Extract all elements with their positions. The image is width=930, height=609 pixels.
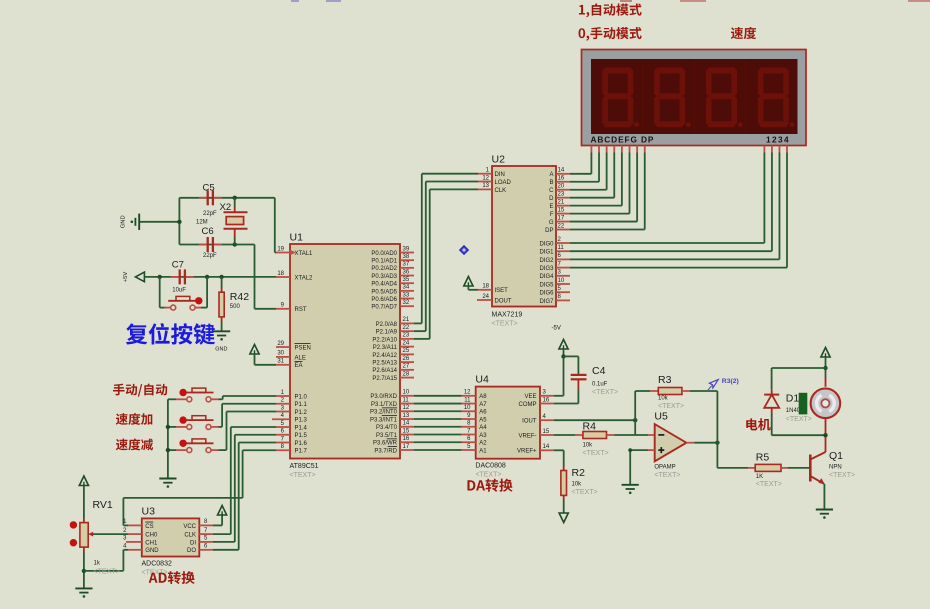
svg-text:1234: 1234 bbox=[766, 134, 790, 144]
svg-text:DIG6: DIG6 bbox=[539, 291, 554, 297]
svg-text:10k: 10k bbox=[572, 482, 583, 488]
svg-text:P1.2: P1.2 bbox=[295, 410, 308, 416]
svg-text:39: 39 bbox=[403, 246, 410, 252]
svg-text:16: 16 bbox=[403, 436, 410, 442]
svg-text:P1.0: P1.0 bbox=[295, 394, 308, 400]
svg-text:GND: GND bbox=[215, 347, 227, 353]
svg-text:R3(2): R3(2) bbox=[722, 378, 739, 385]
svg-text:P3.5/T1: P3.5/T1 bbox=[376, 433, 398, 439]
svg-text:R2: R2 bbox=[572, 467, 586, 479]
svg-text:ISET: ISET bbox=[495, 288, 509, 294]
svg-text:18: 18 bbox=[277, 271, 284, 277]
svg-text:P0.4/AD4: P0.4/AD4 bbox=[371, 282, 397, 288]
svg-text:14: 14 bbox=[558, 168, 565, 174]
svg-text:31: 31 bbox=[277, 359, 284, 365]
svg-text:GND: GND bbox=[145, 548, 159, 554]
svg-text:19: 19 bbox=[277, 246, 284, 252]
svg-text:P2.6/A14: P2.6/A14 bbox=[372, 368, 397, 374]
svg-text:A: A bbox=[549, 172, 553, 178]
svg-text:U3: U3 bbox=[142, 506, 156, 518]
svg-text:ADC0832: ADC0832 bbox=[142, 561, 172, 568]
svg-text:<TEXT>: <TEXT> bbox=[94, 569, 120, 576]
svg-text:13: 13 bbox=[403, 413, 410, 419]
svg-text:DIG3: DIG3 bbox=[539, 266, 554, 272]
svg-text:<TEXT>: <TEXT> bbox=[475, 472, 501, 479]
svg-text:13: 13 bbox=[482, 183, 489, 189]
svg-text:P2.7/A15: P2.7/A15 bbox=[372, 376, 397, 382]
svg-text:28: 28 bbox=[403, 371, 410, 377]
svg-text:17: 17 bbox=[558, 215, 565, 221]
svg-text:<TEXT>: <TEXT> bbox=[756, 481, 782, 488]
svg-text:18: 18 bbox=[482, 284, 489, 290]
svg-text:37: 37 bbox=[403, 262, 410, 268]
svg-text:U5: U5 bbox=[654, 411, 668, 423]
svg-text:22pF: 22pF bbox=[203, 253, 217, 259]
svg-text:RV1: RV1 bbox=[93, 499, 113, 511]
svg-text:P2.3/A11: P2.3/A11 bbox=[373, 345, 398, 351]
svg-text:A8: A8 bbox=[479, 394, 487, 400]
svg-text:B: B bbox=[549, 180, 553, 186]
svg-text:COMP: COMP bbox=[519, 402, 537, 408]
svg-text:P0.1/AD1: P0.1/AD1 bbox=[371, 259, 397, 265]
svg-text:17: 17 bbox=[403, 444, 410, 450]
svg-text:R4: R4 bbox=[583, 420, 597, 432]
svg-text:10uF: 10uF bbox=[172, 288, 186, 294]
svg-text:P0.2/AD2: P0.2/AD2 bbox=[371, 266, 397, 272]
svg-text:AT89C51: AT89C51 bbox=[290, 463, 319, 470]
svg-text:P1.1: P1.1 bbox=[295, 402, 308, 408]
svg-text:DOUT: DOUT bbox=[495, 298, 512, 304]
svg-text:R42: R42 bbox=[230, 291, 249, 303]
svg-text:10k: 10k bbox=[658, 396, 669, 402]
svg-text:A5: A5 bbox=[479, 417, 487, 423]
svg-text:P3.6/WR: P3.6/WR bbox=[373, 441, 398, 447]
svg-text:500: 500 bbox=[230, 304, 241, 310]
svg-text:14: 14 bbox=[403, 421, 410, 427]
svg-text:P3.1/TXD: P3.1/TXD bbox=[371, 402, 398, 408]
svg-text:11: 11 bbox=[464, 397, 471, 403]
svg-text:U4: U4 bbox=[475, 374, 489, 386]
svg-text:23: 23 bbox=[403, 333, 410, 339]
svg-text:1K: 1K bbox=[756, 474, 763, 480]
svg-text:DAC0808: DAC0808 bbox=[475, 463, 505, 470]
svg-text:21: 21 bbox=[558, 199, 565, 205]
svg-text:CLK: CLK bbox=[184, 533, 196, 539]
svg-text:20: 20 bbox=[558, 184, 565, 190]
svg-text:DIG0: DIG0 bbox=[539, 241, 554, 247]
svg-text:E: E bbox=[549, 204, 553, 210]
svg-text:P2.0/A8: P2.0/A8 bbox=[376, 322, 398, 328]
svg-text:VCC: VCC bbox=[183, 524, 196, 530]
svg-text:30: 30 bbox=[277, 351, 284, 357]
svg-text:38: 38 bbox=[403, 254, 410, 260]
svg-text:DP: DP bbox=[545, 228, 553, 234]
svg-text:P1.3: P1.3 bbox=[295, 418, 308, 424]
svg-text:24: 24 bbox=[482, 294, 489, 300]
svg-text:15: 15 bbox=[543, 429, 550, 435]
svg-text:+5V: +5V bbox=[123, 272, 129, 283]
svg-text:DIG4: DIG4 bbox=[539, 274, 554, 280]
svg-text:A6: A6 bbox=[479, 410, 487, 416]
svg-text:F: F bbox=[550, 212, 554, 218]
svg-text:GND: GND bbox=[121, 215, 127, 228]
svg-text:A2: A2 bbox=[479, 441, 487, 447]
svg-text:P1.4: P1.4 bbox=[295, 425, 308, 431]
svg-text:29: 29 bbox=[277, 341, 284, 347]
svg-text:<TEXT>: <TEXT> bbox=[492, 321, 518, 328]
svg-text:<TEXT>: <TEXT> bbox=[592, 389, 618, 396]
svg-text:16: 16 bbox=[558, 176, 565, 182]
svg-text:27: 27 bbox=[403, 364, 410, 370]
svg-text:P2.1/A9: P2.1/A9 bbox=[376, 330, 398, 336]
svg-text:C7: C7 bbox=[172, 260, 184, 271]
svg-text:23: 23 bbox=[558, 191, 565, 197]
svg-text:EA: EA bbox=[295, 363, 303, 369]
svg-text:DIG2: DIG2 bbox=[539, 258, 554, 264]
svg-text:<TEXT>: <TEXT> bbox=[583, 450, 609, 457]
svg-text:DIG1: DIG1 bbox=[539, 250, 554, 256]
svg-text:P3.3/INT1: P3.3/INT1 bbox=[370, 417, 398, 423]
svg-text:34: 34 bbox=[403, 285, 410, 291]
svg-text:DO: DO bbox=[187, 548, 196, 554]
svg-text:P3.4/T0: P3.4/T0 bbox=[376, 425, 398, 431]
svg-text:VREF+: VREF+ bbox=[517, 449, 537, 455]
svg-text:ABCDEFG DP: ABCDEFG DP bbox=[591, 134, 655, 144]
svg-text:D1: D1 bbox=[786, 393, 800, 405]
svg-text:14: 14 bbox=[543, 444, 550, 450]
svg-text:P1.7: P1.7 bbox=[295, 449, 308, 455]
svg-text:12: 12 bbox=[482, 175, 489, 181]
svg-text:U1: U1 bbox=[290, 232, 304, 244]
svg-text:35: 35 bbox=[403, 277, 410, 283]
svg-text:P2.2/A10: P2.2/A10 bbox=[372, 337, 397, 343]
svg-text:25: 25 bbox=[403, 348, 410, 354]
svg-text:P0.0/AD0: P0.0/AD0 bbox=[371, 251, 397, 257]
svg-text:11: 11 bbox=[403, 397, 410, 403]
svg-text:<TEXT>: <TEXT> bbox=[786, 416, 812, 423]
svg-text:33: 33 bbox=[403, 292, 410, 298]
svg-text:CH0: CH0 bbox=[145, 533, 158, 539]
svg-text:PSEN: PSEN bbox=[295, 345, 311, 351]
svg-text:C6: C6 bbox=[202, 226, 214, 237]
svg-text:P0.6/AD6: P0.6/AD6 bbox=[371, 297, 397, 303]
svg-text:21: 21 bbox=[403, 317, 410, 323]
svg-text:0.1uF: 0.1uF bbox=[592, 382, 608, 388]
svg-text:CS: CS bbox=[145, 524, 153, 530]
svg-text:D: D bbox=[549, 196, 554, 202]
svg-text:Q1: Q1 bbox=[829, 450, 843, 462]
svg-text:P3.0/RXD: P3.0/RXD bbox=[370, 394, 397, 400]
svg-text:11: 11 bbox=[558, 245, 565, 251]
svg-text:<TEXT>: <TEXT> bbox=[290, 472, 316, 479]
svg-text:C4: C4 bbox=[592, 365, 606, 377]
svg-text:CLK: CLK bbox=[495, 188, 507, 194]
svg-text:22: 22 bbox=[403, 325, 410, 331]
svg-text:10: 10 bbox=[403, 390, 410, 396]
svg-text:<TEXT>: <TEXT> bbox=[654, 472, 680, 479]
svg-text:C: C bbox=[549, 188, 554, 194]
svg-text:VREF-: VREF- bbox=[519, 433, 537, 439]
svg-text:-5V: -5V bbox=[552, 326, 561, 332]
svg-text:10: 10 bbox=[464, 405, 471, 411]
svg-text:1k: 1k bbox=[94, 561, 101, 567]
svg-text:P3.7/RD: P3.7/RD bbox=[374, 448, 397, 454]
svg-text:P3.2/INT0: P3.2/INT0 bbox=[370, 410, 398, 416]
svg-text:P0.3/AD3: P0.3/AD3 bbox=[371, 274, 397, 280]
svg-text:12M: 12M bbox=[196, 220, 208, 226]
svg-text:MAX7219: MAX7219 bbox=[492, 312, 523, 319]
svg-text:16: 16 bbox=[543, 397, 550, 403]
svg-text:32: 32 bbox=[403, 300, 410, 306]
svg-text:26: 26 bbox=[403, 356, 410, 362]
svg-text:A4: A4 bbox=[479, 425, 487, 431]
svg-text:R3: R3 bbox=[658, 374, 672, 386]
svg-text:DI: DI bbox=[190, 540, 196, 546]
svg-text:P0.7/AD7: P0.7/AD7 bbox=[371, 305, 397, 311]
svg-text:VEE: VEE bbox=[524, 394, 536, 400]
svg-text:P0.5/AD5: P0.5/AD5 bbox=[371, 289, 397, 295]
svg-text:IOUT: IOUT bbox=[522, 419, 537, 425]
svg-text:X2: X2 bbox=[220, 202, 232, 213]
svg-text:12: 12 bbox=[464, 390, 471, 396]
svg-text:12: 12 bbox=[403, 405, 410, 411]
svg-text:<TEXT>: <TEXT> bbox=[572, 489, 598, 496]
svg-text:<TEXT>: <TEXT> bbox=[829, 472, 855, 479]
svg-text:RST: RST bbox=[295, 307, 307, 313]
svg-text:22pF: 22pF bbox=[203, 211, 217, 217]
svg-text:P1.5: P1.5 bbox=[295, 433, 308, 439]
svg-text:OPAMP: OPAMP bbox=[654, 465, 675, 471]
svg-text:P2.5/A13: P2.5/A13 bbox=[372, 361, 397, 367]
svg-text:22: 22 bbox=[558, 223, 565, 229]
svg-text:XTAL2: XTAL2 bbox=[295, 275, 314, 281]
svg-text:LOAD: LOAD bbox=[495, 180, 512, 186]
svg-text:R5: R5 bbox=[756, 452, 770, 464]
svg-text:ALE: ALE bbox=[295, 355, 306, 361]
svg-text:A7: A7 bbox=[479, 402, 487, 408]
svg-text:NPN: NPN bbox=[829, 464, 842, 470]
svg-text:G: G bbox=[549, 220, 554, 226]
svg-text:24: 24 bbox=[403, 340, 410, 346]
svg-text:A3: A3 bbox=[479, 433, 487, 439]
svg-text:DIG5: DIG5 bbox=[539, 282, 554, 288]
svg-text:DIN: DIN bbox=[495, 172, 505, 178]
svg-text:15: 15 bbox=[403, 428, 410, 434]
svg-text:10: 10 bbox=[558, 278, 565, 284]
svg-text:C5: C5 bbox=[203, 183, 215, 194]
svg-text:<TEXT>: <TEXT> bbox=[658, 403, 684, 410]
svg-text:U2: U2 bbox=[492, 154, 506, 166]
svg-text:15: 15 bbox=[558, 207, 565, 213]
svg-text:A1: A1 bbox=[479, 448, 487, 454]
svg-text:XTAL1: XTAL1 bbox=[295, 251, 314, 257]
svg-text:10k: 10k bbox=[583, 443, 594, 449]
svg-text:DIG7: DIG7 bbox=[539, 299, 554, 305]
svg-text:P2.4/A12: P2.4/A12 bbox=[372, 353, 397, 359]
svg-text:36: 36 bbox=[403, 269, 410, 275]
svg-text:CH1: CH1 bbox=[145, 540, 158, 546]
svg-text:P1.6: P1.6 bbox=[295, 441, 308, 447]
